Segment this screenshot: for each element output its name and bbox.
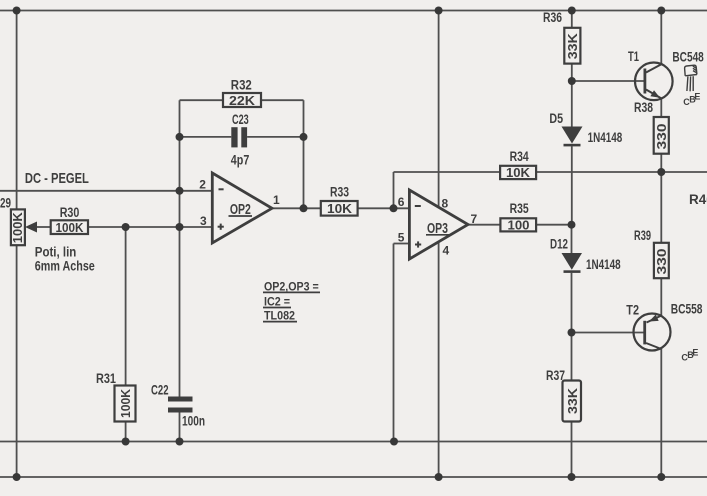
collector lead [646,343,661,349]
node rail441 / R31 [122,438,130,446]
svg-text:T1: T1 [628,49,639,64]
node rail477 / R37 [568,473,576,481]
wire bottom rail lower [0,476,707,478]
wire R37 bottom [571,422,573,478]
node pin3 / R31 [122,223,130,231]
wire [179,413,181,442]
minus sign [415,205,421,207]
svg-text:1: 1 [273,193,280,207]
resistor R34 [500,149,536,180]
wire [88,226,213,228]
svg-text:R37: R37 [546,368,565,383]
potentiometer wiper arrow [25,222,37,233]
wire R36 top [571,11,573,28]
diode D12 1N4148 [550,237,621,273]
wire R33 to OP3 pin6 [358,207,410,209]
svg-text:5: 5 [398,231,405,245]
wire [125,422,127,442]
wire bottom rail upper [0,441,707,443]
wire OP3 output [468,224,500,226]
svg-text:R31: R31 [96,371,116,386]
svg-text:10K: 10K [506,165,531,180]
wire left column lower [16,245,18,477]
svg-text:C22: C22 [151,383,169,398]
node rail477 / pin4 [435,473,443,481]
wire D5 cathode down [571,146,573,224]
svg-text:OP2,OP3 =: OP2,OP3 = [264,279,319,293]
node rail441 / C22 [176,438,184,446]
svg-text:6: 6 [398,195,405,209]
minus sign [219,188,224,190]
legs [687,77,688,92]
node pin3 / C22 [176,223,184,231]
svg-text:33K: 33K [565,33,580,60]
transistor T1 BC548 [628,49,704,100]
transistor T2 BC558 [626,302,703,351]
svg-text:DC - PEGEL: DC - PEGEL [25,170,89,187]
svg-text:330: 330 [654,249,669,275]
svg-text:330: 330 [654,124,669,150]
wire [536,171,707,173]
node top rail / T1 collector [657,7,665,15]
wire T1 base [572,80,645,82]
wire OP3 pin5 [394,243,410,245]
svg-text:R36: R36 [543,10,562,25]
op-amp OP2 [199,173,280,243]
wire C23 horizontal [180,136,232,138]
resistor R32 [223,78,261,108]
op-amp OP3 [398,190,478,259]
pinout label C B E (T2) [681,348,698,363]
wire C22/feedback column [179,100,181,396]
potentiometer R29 body [10,209,25,245]
svg-text:100K: 100K [118,388,133,418]
wire OP2 pin2 input [0,190,213,192]
wire T2 base [572,332,644,334]
wire R37 top [571,333,573,381]
svg-text:29: 29 [0,195,11,210]
base bar [643,321,646,345]
svg-text:8: 8 [442,197,449,211]
svg-text:100: 100 [508,218,530,233]
svg-text:IC2 =: IC2 = [264,294,290,308]
svg-text:100K: 100K [56,220,85,235]
node pin2 / feedback [176,187,184,195]
wire D12 anode [571,225,573,253]
node C23 right [300,133,308,141]
svg-text:R35: R35 [510,201,529,216]
wire left column upper [16,11,18,210]
wire R38 bottom [660,154,662,172]
svg-text:33K: 33K [565,387,580,414]
wire R30 to OP2 pin3 [36,226,51,228]
svg-text:R40: R40 [689,192,707,207]
wire pin5 down [393,244,395,442]
wire R39 to T2 emitter [660,278,662,315]
node rail477 / T2 collector [657,473,665,481]
note OP2,OP3 = IC2 = TL082 [263,279,320,322]
node R38/R39/R34 net [657,168,665,176]
node D12/R37/T2 base [568,329,576,337]
resistor R35 [500,201,536,233]
wire D12 cathode down [571,273,573,333]
node OP3 pin6 [390,204,398,212]
plus sign [218,226,224,228]
collector lead [646,64,662,73]
node top rail / R36 [568,7,576,15]
wire T2 collector down [660,349,662,477]
resistor R38 [634,100,669,154]
svg-text:D12: D12 [550,237,568,252]
wire R31 column [125,227,127,386]
emitter arrow (PNP, into base) [649,315,659,322]
wire R36 bottom to node A [571,64,573,81]
wire R39 top [660,172,662,243]
wire OP3 pin4 column [438,242,440,477]
svg-text:D5: D5 [549,111,563,126]
svg-text:R33: R33 [330,185,349,200]
emitter lead [647,316,662,323]
node R35/D5/D12 [568,221,576,229]
resistor R30 [51,205,88,235]
wire feedback right vertical [303,100,305,208]
svg-text:R30: R30 [60,205,80,220]
resistor R39 [634,228,669,278]
svg-text:R32: R32 [231,78,252,93]
node rail477 / left column [13,473,21,481]
node A R36/D5/T1 base [568,77,576,85]
base bar [644,69,647,94]
svg-text:TL082: TL082 [264,309,295,323]
svg-text:4: 4 [443,244,450,258]
svg-text:1N4148: 1N4148 [588,130,623,145]
svg-text:C23: C23 [232,112,249,127]
wire R34 net horizontal [394,171,501,173]
resistor R31 [96,371,136,422]
wire top supply rail [0,10,707,12]
svg-text:E: E [692,348,698,358]
svg-text:R34: R34 [510,149,529,164]
node top rail / pin8 column [435,7,443,15]
svg-text:6mm Achse: 6mm Achse [35,259,95,274]
diode D5 1N4148 [549,111,622,146]
svg-text:100n: 100n [182,413,205,428]
svg-text:BC548: BC548 [672,50,704,65]
capacitor C22 [151,383,205,429]
svg-text:10K: 10K [327,201,353,216]
node OP2 output / feedback [300,204,308,212]
wire T1 emitter to R38 [660,99,662,118]
wire T1 collector column [660,11,662,65]
pinout label C B E (T1) [683,91,700,107]
TO-92 package icon [685,65,697,91]
node C23 left [176,133,184,141]
wire pin6 feedback up [393,172,395,208]
svg-text:T2: T2 [626,303,639,318]
svg-text:R39: R39 [634,228,651,243]
svg-text:BC558: BC558 [671,302,703,317]
wire node A to D5 [571,81,573,127]
plus sign [415,244,421,246]
svg-text:100K: 100K [10,212,25,244]
svg-text:2: 2 [199,178,206,192]
wire [247,136,303,138]
node top rail / left column [13,7,21,15]
wire OP2 output [272,207,321,209]
svg-text:1N4148: 1N4148 [586,257,621,272]
svg-text:4p7: 4p7 [231,152,250,167]
resistor R37 [546,368,581,422]
emitter arrow [650,90,660,98]
wire R35 to D12 node [536,224,571,226]
wire R32 horizontal [180,99,304,101]
svg-text:E: E [694,91,700,101]
svg-text:22K: 22K [229,93,256,108]
svg-text:Poti, lin: Poti, lin [35,245,77,260]
resistor R36 [543,10,580,64]
wire OP3 pin8 column [438,11,440,208]
capacitor C23 [231,112,250,168]
resistor R33 [321,185,358,216]
emitter lead [646,90,662,99]
node rail441 / pin5 [390,438,398,446]
svg-text:7: 7 [471,212,478,226]
svg-text:R38: R38 [634,100,653,115]
svg-text:3: 3 [200,214,207,228]
